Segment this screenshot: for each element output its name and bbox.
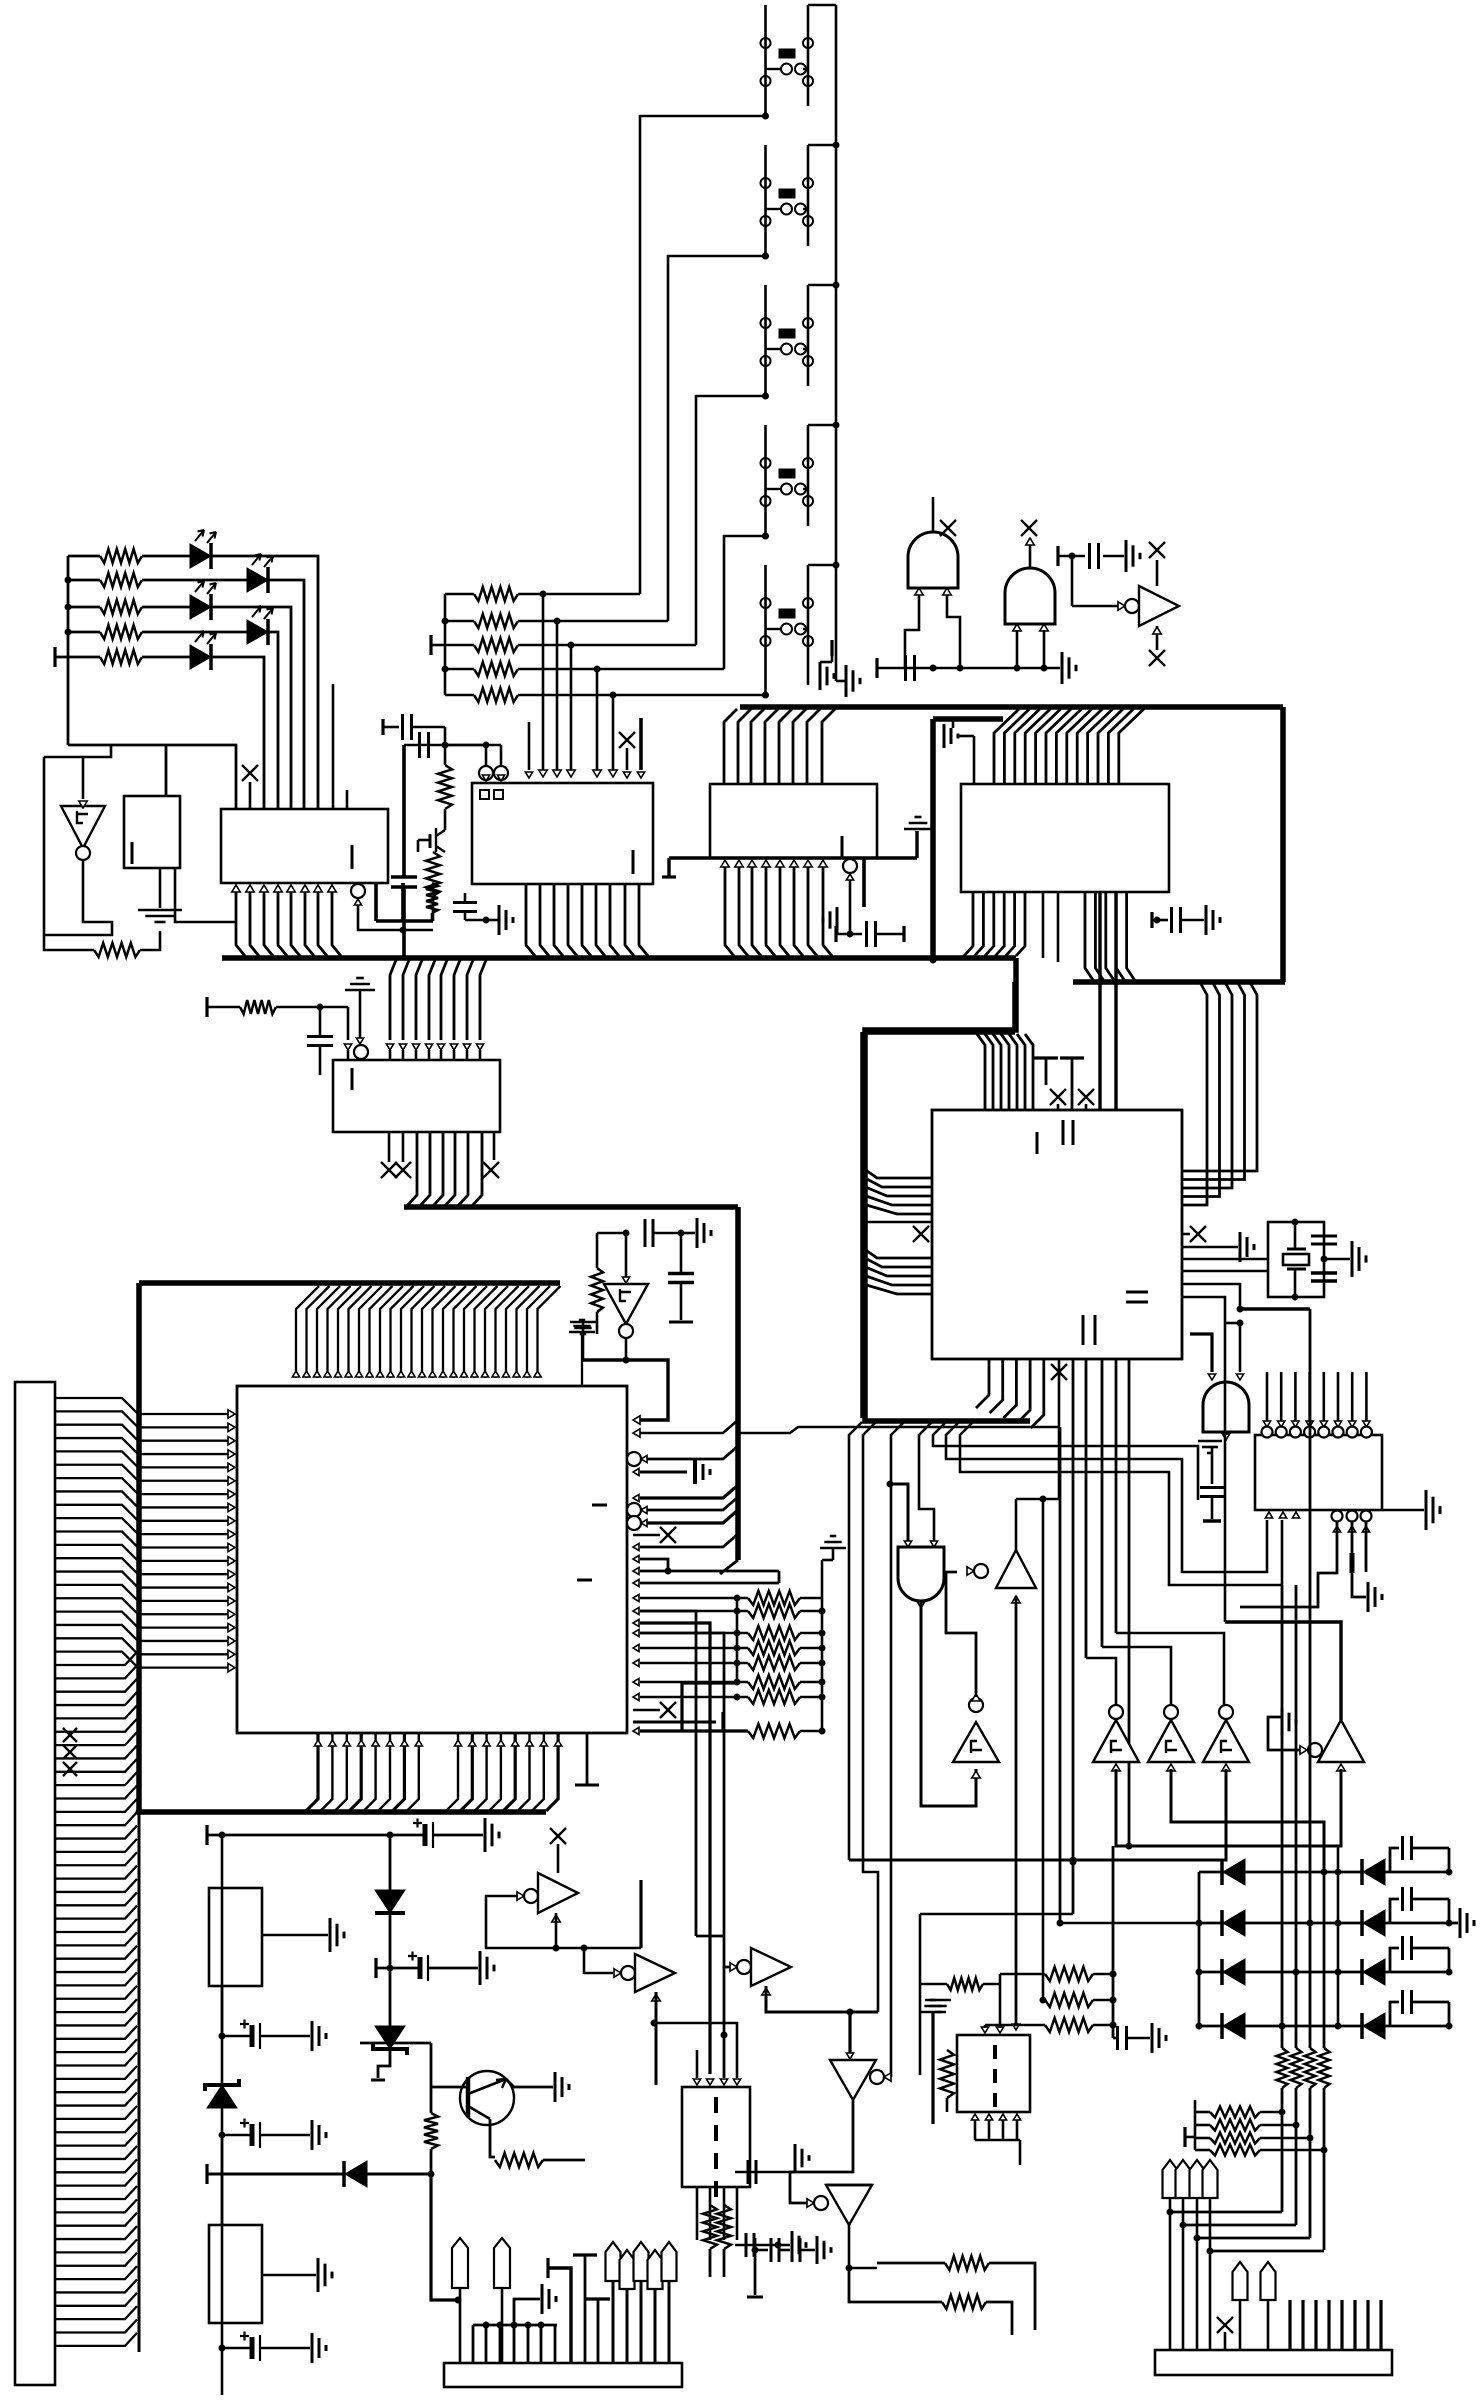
buffer U11 — [1071, 556, 1074, 606]
feed wire to S4 — [724, 536, 766, 669]
pushbutton switch S3 — [764, 285, 767, 396]
pull-up resistor RP2 — [445, 620, 474, 623]
bold wire up — [639, 1880, 642, 1948]
U1 top pin stub with X — [249, 782, 252, 809]
pull-up resistor RP4 — [445, 668, 474, 671]
LED D5 — [190, 645, 211, 669]
U7 right pin bubble 6 bold — [627, 1516, 641, 1530]
cap C5 — [404, 744, 430, 747]
U12 output to U7 — [625, 1338, 628, 1360]
diode DL2 — [1220, 1910, 1224, 1936]
buffer U18 — [1318, 1720, 1364, 1762]
connector J1 body — [15, 1382, 55, 2385]
supply tick — [53, 647, 56, 667]
U23 output wire — [946, 1572, 976, 1697]
connector J1 pins upper (to U7) — [55, 1398, 228, 1414]
supply tick — [633, 1721, 716, 1724]
U26 output chain — [790, 2100, 853, 2203]
U6 top pins from bus stairs — [977, 1034, 985, 1110]
diode DR3 — [1360, 1959, 1364, 1985]
link wire — [1210, 2250, 1324, 2253]
left rail — [444, 594, 447, 695]
ground comb rail — [473, 2324, 557, 2327]
pull-up resistor RP5 — [445, 694, 474, 697]
ground stub — [1182, 1246, 1238, 1249]
wire bundle verticals — [1059, 1427, 1062, 1923]
cap C6 to ground — [453, 901, 477, 904]
box U25 — [957, 2035, 1030, 2112]
pushbutton switch S4 — [764, 425, 767, 536]
pull resistors to header — [1183, 2127, 1186, 2147]
cap C10 — [680, 1233, 683, 1272]
schmitt 3 wire — [1116, 1633, 1224, 1705]
right column feed — [1337, 1846, 1340, 2026]
branch to U9 — [165, 745, 168, 796]
connector J2 — [444, 2363, 682, 2387]
LED D2 — [247, 568, 268, 592]
IC U14 — [1255, 1435, 1382, 1510]
U18 output bold — [1225, 1622, 1341, 1720]
NAND gate U10A — [908, 532, 958, 588]
U25 bottom pins — [971, 2114, 978, 2120]
wire S3 to bus — [808, 284, 836, 287]
schmitt buffer U16 — [1164, 1705, 1178, 1719]
bus: corner down from main bus — [865, 958, 1030, 1421]
U3 bottom bubble pin — [843, 859, 857, 873]
long wire to resistor row — [1042, 1499, 1045, 2000]
IC U5 — [333, 1060, 500, 1132]
connector J1 pins lower — [55, 1652, 137, 1665]
pushbutton switch S2 — [764, 145, 767, 256]
U4 bottom pins left group to bus — [964, 892, 973, 956]
X stubs above U6 — [1050, 1089, 1066, 1105]
VR2 ground — [262, 2274, 316, 2277]
U7 right pin 11 — [633, 1579, 639, 1586]
reset resistor R10 — [205, 997, 208, 1017]
pull-up rail + ground — [821, 1560, 824, 1731]
buffer U24 — [996, 1550, 1036, 1588]
U2 top pin stub with X — [626, 748, 629, 770]
buffer U28 — [730, 1963, 737, 1971]
bus from U5 to U6 region — [404, 1204, 738, 1210]
diode DL4 — [1220, 2013, 1224, 2039]
LED D3 — [190, 595, 211, 619]
ground wire under U3 — [669, 856, 917, 859]
crystal Y1 — [1283, 1254, 1309, 1265]
transistor Q2 — [460, 2071, 514, 2125]
bold pin with tick — [546, 2258, 549, 2278]
box U21 — [682, 2087, 750, 2187]
U7 clock out wire — [640, 1420, 738, 1433]
cap C7 — [834, 926, 837, 942]
pushbutton switch S1 — [764, 5, 767, 116]
U4 top pin fan from bus — [994, 709, 1019, 784]
wire S4 to bus — [808, 424, 836, 427]
matrix row 3 wire — [1199, 1971, 1449, 1974]
bus tail diagonal — [720, 1560, 738, 1574]
LED D2 wire to U1 — [268, 580, 304, 809]
cap CR3 — [1390, 1948, 1399, 1972]
rail left + bold elbow — [736, 1598, 739, 1683]
U21 bottom stubs — [696, 2187, 699, 2240]
mid rail — [919, 1914, 922, 2075]
U21 top pins — [693, 2079, 700, 2085]
long fan wire 2 — [863, 1422, 878, 2012]
U7 bottom pins group1 — [306, 1733, 318, 1811]
diode DR1 — [1360, 1859, 1364, 1885]
schmitt buffer U15 — [1109, 1705, 1123, 1719]
cap CR2 — [1390, 1899, 1399, 1923]
caps left 2 — [735, 2244, 790, 2247]
zener D7 — [389, 1968, 392, 2032]
down triangle U27 — [826, 2185, 872, 2225]
pins from lower bus into U6 right edge — [1182, 984, 1257, 1171]
bullet pins J4 — [1233, 2262, 1248, 2300]
bullet pins cluster — [606, 2242, 621, 2281]
buffer U19 — [524, 1889, 538, 1903]
riser to U2 pin 1 — [540, 591, 547, 598]
bullet pin B1 — [452, 2238, 468, 2288]
IC U4 — [961, 784, 1169, 892]
pin 1366 stub — [1365, 1522, 1368, 1572]
res wire 2 — [849, 2268, 942, 2302]
rail wire to U1 — [68, 745, 236, 809]
feed wire to S5 — [762, 692, 769, 699]
ecap C17 — [219, 2132, 226, 2139]
pushbutton switch S5 — [764, 565, 767, 695]
supply tick mid — [864, 1214, 867, 1230]
long fan wire 3 — [891, 1422, 904, 2077]
cap C8 — [319, 1007, 322, 1036]
wire to mid rail — [920, 1913, 1073, 1916]
U6 bottom pin with X — [1058, 1359, 1061, 1499]
U5 bottom pins — [381, 1162, 397, 1178]
fan wire h1459 — [946, 1422, 1267, 1572]
U25 left bold vertical — [920, 2011, 946, 2014]
header resistor RH4 — [1195, 2149, 1210, 2152]
row2 feed from left — [1060, 1922, 1199, 1925]
inverter U8 (schmitt) — [61, 806, 105, 848]
down triangle U26 — [848, 2012, 851, 2053]
middle column 4 — [1281, 1585, 1284, 2026]
loop to U24 — [1016, 1498, 1059, 1501]
LED resistor R2 — [68, 579, 100, 582]
diode DR2 — [1360, 1910, 1364, 1936]
U7 right pin to ground — [633, 1468, 639, 1475]
U7 right pin 4 bold — [633, 1494, 639, 1501]
ground — [1321, 1256, 1328, 1263]
U7 right pins to pull-up rail — [633, 1594, 639, 1601]
LED resistor R3 — [68, 606, 100, 609]
matrix row 1 wire — [1199, 1871, 1449, 1874]
middle column 2 — [1309, 1309, 1312, 1923]
cap-ground left — [830, 640, 833, 656]
T pin 2 — [586, 2297, 610, 2300]
cap CR4 — [1390, 2002, 1399, 2026]
Q2 emitter resistor — [490, 2119, 495, 2157]
wire to mosfet — [444, 727, 447, 765]
crystal loop — [1268, 1222, 1324, 1297]
bus upper left to U6 — [863, 1029, 1015, 1035]
mosfet Q1 — [444, 809, 447, 830]
U1 bottom bubble pin — [351, 884, 365, 898]
pin 1337 wire — [1240, 1522, 1337, 1607]
resistor R11 — [596, 1233, 599, 1268]
left rail — [67, 556, 70, 745]
diode DL3 — [1220, 1959, 1224, 1985]
riser to U2 pin 2 — [554, 618, 561, 625]
U8 output wire — [44, 860, 112, 935]
U6 left pin group B — [863, 1248, 932, 1258]
U7 right pin row bold — [633, 1727, 639, 1734]
U7 right pin bubble 1 — [627, 1452, 641, 1466]
cap C11 — [1311, 1235, 1337, 1238]
U5 top pins from bus — [390, 960, 396, 1040]
U7 bottom pins group2 — [446, 1733, 458, 1811]
header resistor RH1 — [1195, 2111, 1210, 2114]
middle column 3 — [1295, 1585, 1298, 1972]
J4 bold stub pins — [1288, 2300, 1291, 2350]
buffer U20 — [584, 1948, 613, 1973]
matrix row 4 wire — [1199, 2025, 1449, 2028]
resistor columns to J2 area — [703, 2205, 717, 2249]
XTAL wires — [1182, 1258, 1268, 1261]
cap CR1 — [1390, 1848, 1399, 1872]
NAND gate U10B — [1005, 568, 1055, 624]
feed wire to S3 — [696, 396, 766, 645]
ecap C18 — [219, 2345, 226, 2352]
U7 right pin 8 — [633, 1543, 639, 1550]
U13 output ground — [1222, 1434, 1229, 1440]
caps left — [735, 2171, 790, 2174]
fan wire h1446 — [933, 1422, 1198, 1500]
riser to U2 pin 4 — [594, 666, 601, 673]
resistor R8 — [438, 765, 452, 809]
IC U7 (main CPU) — [237, 1386, 627, 1733]
schmitt inverter U12 — [625, 1233, 628, 1278]
ecap C14 — [423, 1824, 428, 1846]
diode DL1 — [1220, 1859, 1224, 1885]
regulator VR1 — [209, 1888, 262, 1986]
LED D5 wire to U1 — [211, 657, 264, 809]
LED D1 wire to U1 — [211, 556, 318, 809]
cap C9 and ground — [597, 1232, 626, 1235]
caps to ground row — [877, 667, 1060, 670]
wire to buffer Q4 — [1182, 1297, 1225, 1323]
riser to U2 pin 3 — [568, 642, 575, 649]
feed wire to S2 — [668, 256, 766, 621]
U4 bold pins down to U6 — [1098, 892, 1101, 1110]
U1 bottom bold pin — [374, 883, 378, 921]
IC U3 — [710, 784, 877, 858]
IC U2 — [472, 783, 653, 884]
U7 right pin bubble 5 — [627, 1503, 641, 1517]
U7 top bus — [139, 1280, 560, 1286]
U4 bottom stubs — [1042, 892, 1045, 958]
ecap C16 — [219, 2033, 226, 2040]
link wire — [1197, 2237, 1310, 2240]
wire S2 to bus — [808, 144, 836, 147]
LED resistor R5 — [55, 656, 100, 659]
U7 ground pin — [586, 1733, 589, 1785]
power flag pin — [569, 1331, 595, 1334]
U8 feedback loop wire — [44, 757, 94, 950]
pull-up resistor RP1 — [445, 593, 474, 596]
wire S1 to bus — [808, 4, 836, 7]
cap C12 — [1311, 1271, 1337, 1274]
header resistor RH2 — [1195, 2124, 1210, 2127]
decoupling cap C20 — [1056, 546, 1059, 566]
AND gate U22 — [890, 1484, 908, 1541]
vertical bus right of switches — [835, 5, 838, 681]
mid ground — [925, 1999, 951, 2002]
bus: right edge — [1280, 707, 1286, 982]
supply T bars above U6 — [1034, 1056, 1058, 1059]
bus: inner vertical — [930, 719, 936, 960]
cap C19 to ground — [1112, 1846, 1115, 2038]
ground stub on inner bus — [952, 719, 955, 728]
schmitt 1 wire — [1086, 1658, 1116, 1705]
bus collector lower — [138, 1812, 141, 2352]
ground stub left — [836, 907, 839, 933]
schmitt 3 input wire — [849, 1769, 1226, 1860]
small IC U9 — [124, 796, 180, 868]
pin 1352 cap + ground — [1351, 1522, 1354, 1553]
fan wire h1472 — [960, 1422, 1282, 1585]
feedback resistor R6 — [94, 943, 140, 957]
schmitt input wires — [1116, 1769, 1341, 1846]
riser to U2 pin 5 — [610, 692, 617, 699]
ecap C15 — [374, 1958, 377, 1978]
diode D6 — [389, 1835, 392, 1898]
IC U1 — [221, 809, 388, 883]
cap C3 — [381, 719, 384, 735]
LED D4 wire to U1 — [268, 632, 278, 809]
bottom connector J4 — [1155, 2350, 1392, 2375]
resistor R9 — [417, 840, 420, 852]
U6 bottom bold pins — [1072, 1359, 1075, 1914]
wire group from U7 bottom right — [696, 1935, 724, 1938]
U2 top bold pin — [639, 718, 643, 770]
wire from zener to Q2 — [360, 2042, 431, 2045]
right rail ground — [1449, 1922, 1458, 1925]
T pin 1 — [573, 2253, 597, 2256]
res wire 1 — [877, 2262, 945, 2265]
left rail — [1198, 1872, 1201, 2026]
U3 bottom bold stub — [862, 858, 866, 907]
diode DR4 — [1360, 2013, 1364, 2039]
resistor rows mid — [1000, 1973, 1045, 1976]
U4 bottom pins right group to lower bus — [1085, 892, 1093, 980]
U7 right pin 10 — [633, 1567, 639, 1574]
resistor R7 — [426, 883, 438, 913]
link wire — [1183, 2224, 1296, 2227]
wire to U20 — [556, 1947, 584, 1950]
LED D1 — [190, 544, 211, 568]
supply tick 2 — [205, 2164, 208, 2184]
schmitt 2 wire — [1102, 1647, 1171, 1705]
comb ground — [514, 2299, 540, 2325]
ground — [570, 1321, 596, 1324]
U3 bottom pins to bus — [721, 860, 729, 867]
power flag to U5 OE — [345, 989, 375, 992]
no-connect X marks — [63, 1728, 77, 1742]
U22 output — [917, 1602, 924, 1608]
U1 top stub — [332, 684, 335, 809]
main vertical rail — [221, 1835, 224, 2395]
U7 right pin 9 — [633, 1555, 639, 1562]
header J3 pins — [1163, 2160, 1178, 2198]
header resistor RH3 — [1195, 2137, 1210, 2140]
U9 pin wire — [175, 868, 236, 922]
ground at bus bottom — [836, 680, 845, 683]
regulator VR2 — [209, 2225, 262, 2323]
schmitt buffer U23 — [953, 1722, 999, 1762]
base resistor — [430, 2086, 433, 2113]
U18 ground loop — [1268, 1717, 1300, 1750]
U6 lower right wires — [1182, 1284, 1240, 1309]
supply tick + input wire — [205, 1825, 208, 1845]
U2 bottom pins to bus — [526, 884, 535, 956]
bold cap C4 — [402, 745, 406, 876]
U9 ground — [159, 868, 162, 908]
NAND gate U13 — [1190, 1334, 1212, 1372]
bullet pin B2 — [494, 2238, 510, 2288]
U3 top pins from bus — [724, 709, 737, 784]
LED resistor R1 — [68, 555, 100, 558]
U25 left resistor — [940, 2050, 954, 2098]
link wire — [1170, 2211, 1282, 2214]
decoupling cap C21 — [1150, 912, 1153, 928]
U7 left bus vertical — [136, 1283, 142, 1812]
cap string right of J2 — [754, 2238, 757, 2295]
U14 right ground — [1382, 1509, 1424, 1512]
U2 top pin stub — [528, 722, 531, 770]
middle column 1 — [1321, 1869, 1328, 1876]
U27 output wires — [849, 2225, 877, 2268]
X mark pin — [1217, 2317, 1233, 2333]
X stub right of U6 — [1182, 1233, 1190, 1236]
U24 long output down — [1012, 1596, 1020, 1603]
U14 bottom pins — [1265, 1512, 1272, 1518]
pull-up resistor RP3 — [445, 644, 474, 647]
cap C13 — [1211, 1448, 1214, 1484]
bus: top bus to U4 — [740, 704, 1283, 710]
U7 top pin fan — [296, 1286, 319, 1378]
U1 bottom pins to bus — [232, 885, 240, 892]
U20 power arrow — [652, 1994, 660, 2001]
U6 left pin group A — [863, 1168, 932, 1178]
U6 bottom pins left group to bus — [976, 1359, 989, 1408]
bus: lower right bus — [1073, 979, 1285, 985]
X stub — [633, 1534, 660, 1537]
supply tick — [429, 635, 432, 655]
U19 feedback loop — [486, 1896, 556, 1948]
IC U6 — [932, 1110, 1182, 1359]
schmitt buffer U17 — [1219, 1705, 1233, 1719]
feed wire to S1 — [640, 116, 766, 594]
LED D3 wire to U1 — [211, 607, 291, 809]
Q2 collector to ground — [506, 2079, 553, 2087]
zener D8 — [207, 2085, 237, 2108]
X stub low — [633, 1709, 660, 1712]
U2 top bubble pins — [483, 742, 490, 749]
bus: main horizontal bus — [222, 955, 1016, 961]
U28 power arrow — [762, 1988, 770, 1995]
VR1 ground — [262, 1934, 328, 1937]
U7 bottom bus — [139, 1809, 546, 1815]
thick wire down to J2 — [431, 2174, 458, 2300]
